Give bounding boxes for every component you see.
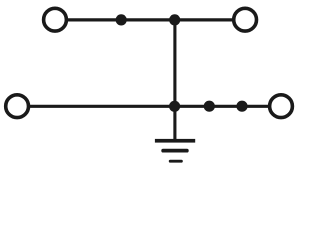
terminal contact bottom-left (6, 95, 29, 118)
junction dot top rail (169, 14, 180, 25)
clamp point dot top rail (116, 14, 127, 25)
clamp point dot bottom rail 1 (204, 101, 215, 112)
wire bottom rail (28, 105, 269, 108)
terminal contact top-right (234, 8, 257, 31)
wire vertical to ground (173, 20, 176, 141)
wire top rail (66, 18, 233, 21)
terminal contact top-left (44, 8, 67, 31)
junction dot bottom rail (169, 101, 180, 112)
terminal contact bottom-right (270, 95, 293, 118)
clamp point dot bottom rail 2 (236, 101, 247, 112)
ground (155, 139, 195, 163)
